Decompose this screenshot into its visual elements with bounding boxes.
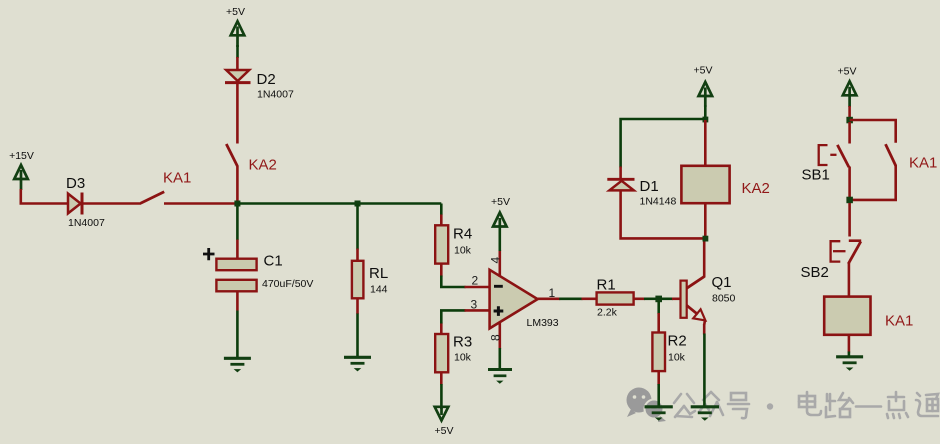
svg-text:D2: D2 [257,71,276,88]
wire KA1 to node A [164,202,237,205]
resistor R1 [597,277,634,319]
wire node A to C1 [236,206,239,240]
wire R3 to +5V rail [440,372,443,385]
svg-text:+5V: +5V [435,425,454,437]
wire KA2 to node A [236,166,239,204]
resistor R4 [435,225,472,263]
node C junction (relay top) [703,117,709,123]
op-amp pin 4 (V+) [498,250,501,277]
contact KA1 (relay contact branch) [850,120,938,200]
wire Q1 collector up [703,238,706,278]
svg-text:+5V: +5V [694,65,713,77]
wire node C to D1 cathode [621,119,706,168]
svg-text:KA1: KA1 [885,313,913,330]
svg-text:KA2: KA2 [742,180,770,197]
wire +15V to D3 [21,189,68,204]
wire node A to R4 column [237,202,441,205]
svg-text:+5V: +5V [226,6,245,18]
wire main to R4 [440,204,443,216]
ground (op-amp) [488,370,512,384]
svg-text:10k: 10k [454,352,472,364]
diode D2 [225,70,294,101]
power +5V (op-amp) [491,196,510,228]
svg-text:R3: R3 [453,334,472,351]
op-amp U1 LM393 [490,270,559,329]
svg-text:KA1: KA1 [909,155,937,172]
wire C1 to ground [236,291,239,311]
wire SB2 to relay KA1 [848,263,851,297]
power +15V [9,150,34,190]
svg-text:+15V: +15V [9,150,34,162]
svg-text:8050: 8050 [712,293,736,305]
node F junction (parallel bottom) [846,197,853,204]
node D junction (relay bottom / collector) [703,236,709,242]
relay coil KA1 [824,297,913,335]
wire D3 to KA1 contact [83,202,141,205]
power +5V (D2 branch) [226,6,245,58]
wire to D2 anode [236,57,239,70]
button SB2 (NC) [801,241,862,281]
svg-text:SB2: SB2 [801,264,829,281]
wire pin1 to R1 [559,297,582,300]
ground (Q1) [691,407,719,420]
power +5V (right column) [838,66,857,121]
wire D1 anode to node D [621,190,703,238]
svg-text:D1: D1 [640,178,659,195]
node B junction [655,296,662,303]
relay coil KA2 [681,120,769,239]
wire relay KA1 to ground [848,335,851,353]
power +5V (down, below R3) [435,406,454,437]
wire SB1 to node F [848,167,851,200]
svg-text:R4: R4 [453,226,472,243]
button SB1 [802,145,849,184]
node RL junction [355,201,361,207]
wire R4 to op-amp pin 2 [440,263,443,276]
capacitor C1 [203,248,313,291]
svg-text:2: 2 [472,274,479,288]
svg-text:1N4007: 1N4007 [68,217,105,229]
ground (relay KA1) [836,357,863,370]
resistor R3 [435,334,472,373]
wire node E to SB1 [848,122,851,144]
wire R2 to ground [657,371,660,385]
wire Q1 emitter to ground [703,324,706,335]
svg-text:R1: R1 [597,277,616,294]
node A junction [234,201,240,207]
svg-text:1N4148: 1N4148 [640,196,677,208]
power +5V (relay branch) [694,65,713,120]
wire RL to ground [356,298,359,314]
svg-text:D3: D3 [66,175,85,192]
pin 3 [465,309,490,312]
svg-text:4: 4 [489,257,503,264]
resistor R2 [652,333,686,372]
svg-text:1: 1 [549,286,556,300]
svg-text:1N4007: 1N4007 [257,89,294,101]
wire node B to Q1 base [660,297,673,300]
svg-text:10k: 10k [668,352,686,364]
svg-text:10k: 10k [454,245,472,257]
ground (RL) [344,357,371,371]
wire R3 to op-amp pin 3 [440,323,443,335]
svg-text:Q1: Q1 [712,274,732,291]
svg-text:KA1: KA1 [163,170,191,187]
svg-text:C1: C1 [264,253,283,270]
svg-text:R2: R2 [668,333,687,350]
svg-text:8: 8 [489,334,503,341]
svg-text:2.2k: 2.2k [597,307,618,319]
wire node F to SB2 [848,203,851,237]
node E junction (parallel top) [846,117,853,124]
wire to RL [356,204,359,250]
svg-text:KA2: KA2 [249,157,277,174]
ground (C1) [224,358,251,372]
svg-text:RL: RL [369,265,388,282]
svg-text:SB1: SB1 [802,167,830,184]
svg-text:+5V: +5V [838,66,857,78]
pin 2 [465,286,490,289]
wire node B to R2 [657,301,660,314]
svg-text:+5V: +5V [491,196,510,208]
svg-text:3: 3 [471,298,478,312]
resistor RL [352,261,388,299]
diode D1 [607,178,676,208]
svg-text:144: 144 [370,284,388,296]
diode D3 [66,175,105,229]
op-amp output pin 1 [538,297,561,300]
ground (R2) [645,407,673,420]
op-amp pin 8 (GND) [498,322,501,350]
wire D2 to KA2 contact [236,84,239,144]
switch contact KA2 [226,144,277,174]
transistor Q1 [681,274,736,325]
wire R1 to node B [634,297,646,300]
switch contact KA1 [141,170,192,204]
svg-text:LM393: LM393 [527,317,559,329]
svg-text:470uF/50V: 470uF/50V [262,278,313,290]
